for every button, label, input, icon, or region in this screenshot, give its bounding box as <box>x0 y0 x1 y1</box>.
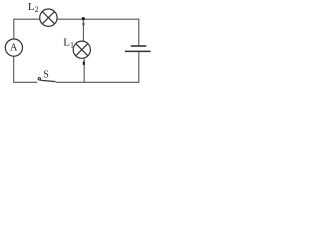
wire bottom (switch to right corner) <box>56 52 139 82</box>
wire thick stub below junction <box>83 23 85 26</box>
node junction dot below L1 <box>83 61 85 65</box>
switch S blade <box>40 80 55 81</box>
battery long plate (bottom, positive) <box>125 50 151 52</box>
svg-text:S: S <box>43 69 49 80</box>
wire top-right horizontal (L2 to right corner) <box>57 19 139 45</box>
lamp L1 <box>73 41 90 58</box>
node junction dot top <box>82 17 85 20</box>
ammeter A <box>5 39 22 56</box>
lamp L2 <box>40 9 57 26</box>
svg-text:L1: L1 <box>63 36 74 49</box>
wire top-left horizontal (corner to L2) <box>14 19 40 39</box>
svg-text:A: A <box>10 42 18 53</box>
wire below L1 down to bottom wire <box>83 58 85 82</box>
wire branch down to L1 <box>82 19 84 41</box>
switch S terminal circle <box>38 78 40 80</box>
wire ammeter bottom to bottom-left corner <box>14 56 38 82</box>
svg-text:L2: L2 <box>28 1 39 14</box>
battery short plate (top, negative) <box>131 45 147 47</box>
